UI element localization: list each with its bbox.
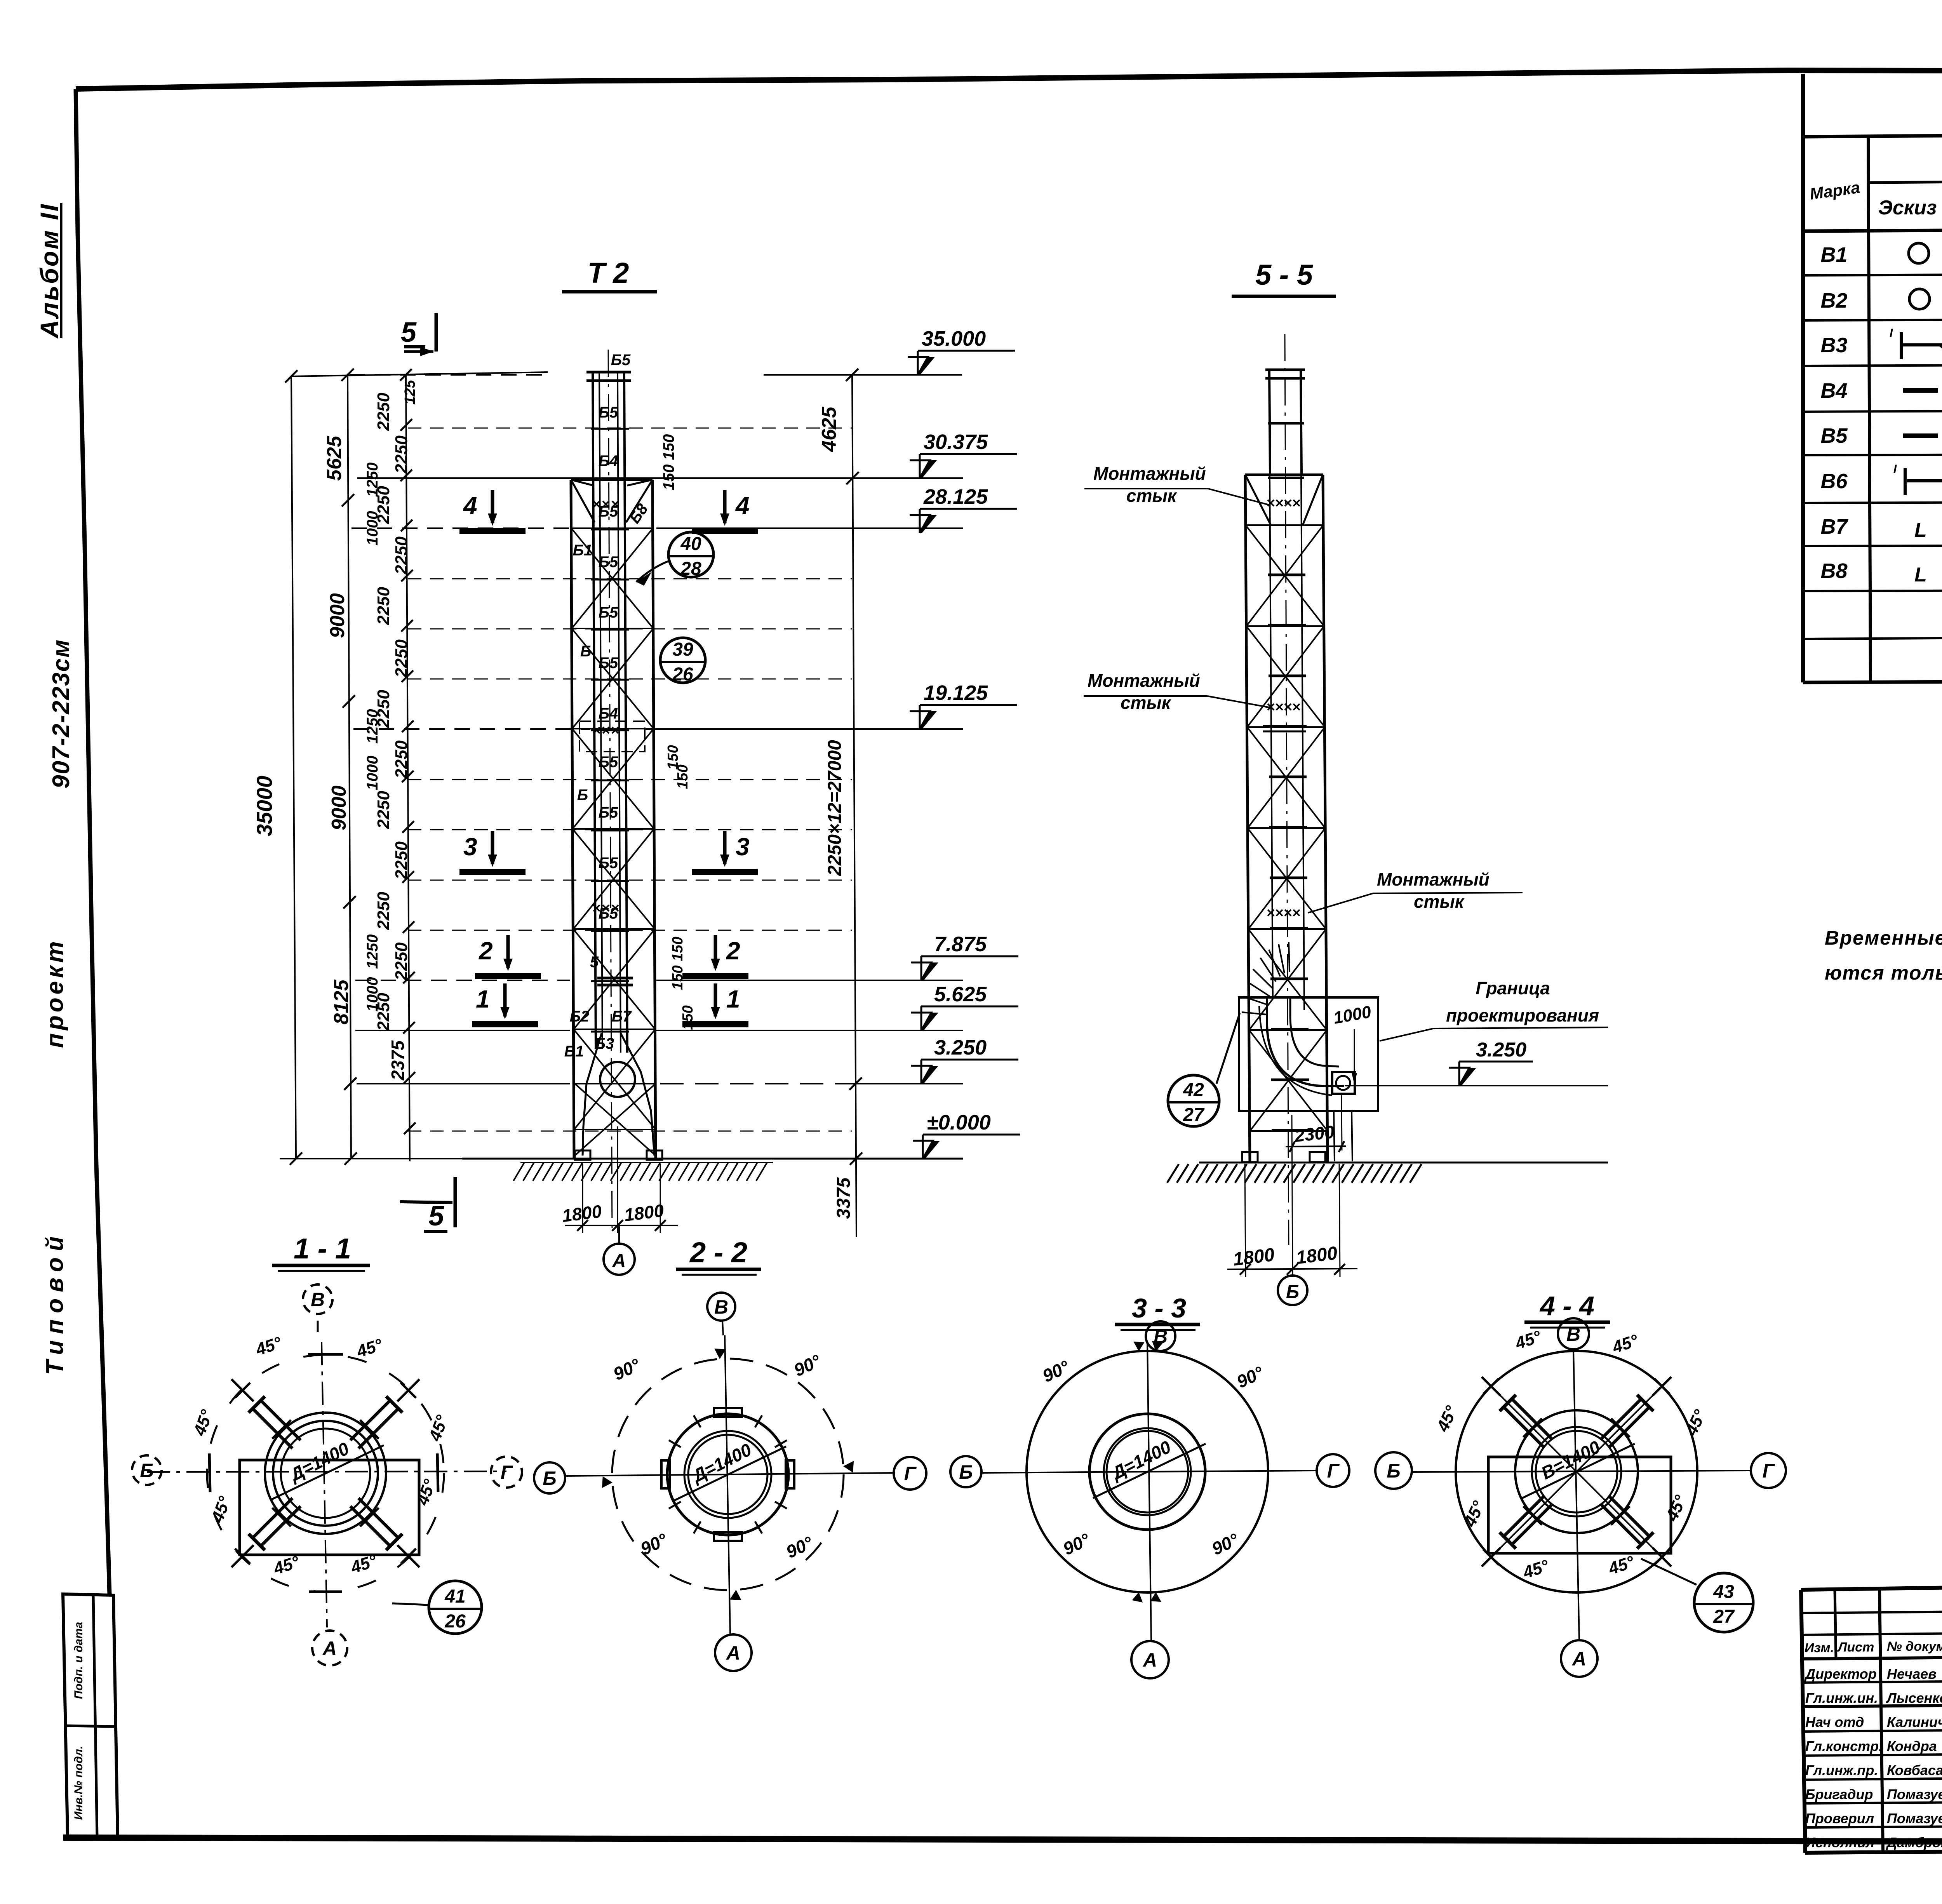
svg-text:Б5: Б5 xyxy=(599,754,618,771)
svg-text:43: 43 xyxy=(1713,1582,1734,1602)
svg-text:5: 5 xyxy=(428,1201,444,1232)
svg-text:Альбом II: Альбом II xyxy=(35,203,64,339)
svg-text:Б5: Б5 xyxy=(599,654,618,672)
svg-text:Помазуева: Помазуева xyxy=(1887,1786,1942,1802)
svg-text:2250: 2250 xyxy=(392,841,411,880)
svg-text:5.625: 5.625 xyxy=(934,983,987,1006)
svg-text:Б: Б xyxy=(959,1461,973,1483)
svg-text:Б: Б xyxy=(140,1460,153,1481)
svg-text:2: 2 xyxy=(479,937,493,965)
svg-text:Б1: Б1 xyxy=(564,1043,584,1060)
svg-text:5: 5 xyxy=(401,317,417,348)
svg-text:В3: В3 xyxy=(1820,334,1847,357)
svg-text:2250: 2250 xyxy=(392,942,411,981)
svg-text:L: L xyxy=(1914,519,1927,541)
svg-text:В: В xyxy=(1566,1323,1580,1345)
svg-text:№ докум: № докум xyxy=(1887,1639,1942,1654)
svg-text:1 - 1: 1 - 1 xyxy=(294,1232,351,1265)
svg-text:Монтажный: Монтажный xyxy=(1377,869,1490,889)
svg-text:Б2: Б2 xyxy=(570,1008,590,1025)
svg-text:Б: Б xyxy=(580,643,591,660)
svg-text:Калиничев: Калиничев xyxy=(1887,1714,1942,1730)
svg-text:А: А xyxy=(612,1251,626,1271)
svg-text:Подп. и дата: Подп. и дата xyxy=(72,1622,85,1699)
svg-text:125: 125 xyxy=(402,379,418,404)
svg-text:I: I xyxy=(1890,327,1893,339)
svg-text:Б5: Б5 xyxy=(599,604,618,621)
svg-text:В: В xyxy=(714,1296,728,1318)
svg-text:Г: Г xyxy=(904,1463,917,1485)
svg-text:±0.000: ±0.000 xyxy=(927,1111,991,1134)
svg-text:26: 26 xyxy=(672,664,693,685)
svg-text:В2: В2 xyxy=(1820,289,1847,312)
svg-text:Типовой: Типовой xyxy=(42,1230,68,1375)
svg-text:А: А xyxy=(322,1638,337,1659)
svg-text:1: 1 xyxy=(476,985,490,1013)
svg-text:Ковбаса: Ковбаса xyxy=(1887,1762,1942,1778)
svg-text:Граница: Граница xyxy=(1476,978,1550,998)
svg-text:2 - 2: 2 - 2 xyxy=(689,1236,747,1269)
svg-text:1: 1 xyxy=(726,985,740,1013)
svg-text:1250: 1250 xyxy=(364,463,381,497)
svg-text:Б5: Б5 xyxy=(599,804,618,821)
svg-text:Директор: Директор xyxy=(1804,1666,1877,1682)
svg-text:Б5: Б5 xyxy=(599,404,618,421)
svg-text:А: А xyxy=(726,1642,740,1664)
svg-text:3 - 3: 3 - 3 xyxy=(1132,1293,1186,1323)
svg-text:Б5: Б5 xyxy=(599,905,618,922)
svg-text:Б5: Б5 xyxy=(599,855,618,872)
svg-text:стык: стык xyxy=(1414,891,1465,912)
svg-text:Б1: Б1 xyxy=(573,542,593,559)
svg-text:35000: 35000 xyxy=(252,776,277,836)
svg-text:проект: проект xyxy=(42,938,68,1048)
svg-text:Б3: Б3 xyxy=(595,1035,614,1052)
svg-text:5: 5 xyxy=(590,954,599,971)
svg-text:В4: В4 xyxy=(1820,379,1847,402)
svg-text:9000: 9000 xyxy=(326,593,349,638)
svg-text:Б7: Б7 xyxy=(612,1008,632,1025)
svg-text:Нач отд: Нач отд xyxy=(1805,1714,1864,1730)
svg-text:Нечаев: Нечаев xyxy=(1887,1666,1937,1682)
svg-text:Г: Г xyxy=(1327,1460,1340,1482)
svg-text:Б4: Б4 xyxy=(599,453,618,470)
svg-text:Инв.№ подл.: Инв.№ подл. xyxy=(72,1746,85,1820)
svg-text:В7: В7 xyxy=(1820,515,1848,538)
svg-text:3.250: 3.250 xyxy=(1476,1039,1526,1061)
svg-text:2375: 2375 xyxy=(388,1040,408,1081)
svg-text:Б: Б xyxy=(1286,1282,1299,1302)
svg-text:ются только на время монтажа и: ются только на время монтажа или ремонта… xyxy=(1825,962,1942,984)
svg-text:150 150: 150 150 xyxy=(670,936,686,990)
svg-text:Б: Б xyxy=(577,787,588,804)
svg-text:7.875: 7.875 xyxy=(934,933,987,956)
svg-text:2250: 2250 xyxy=(392,536,411,575)
svg-text:40: 40 xyxy=(680,534,701,554)
svg-text:1250: 1250 xyxy=(364,935,381,969)
svg-text:Г: Г xyxy=(501,1462,513,1483)
svg-text:Монтажный: Монтажный xyxy=(1093,463,1206,484)
svg-text:Г: Г xyxy=(1763,1460,1775,1482)
svg-text:В8: В8 xyxy=(1820,559,1847,583)
svg-text:27: 27 xyxy=(1183,1105,1205,1125)
svg-text:Б: Б xyxy=(1387,1460,1400,1482)
svg-text:Монтажный: Монтажный xyxy=(1088,670,1200,691)
svg-text:1000: 1000 xyxy=(364,756,381,790)
svg-text:В5: В5 xyxy=(1820,424,1848,447)
svg-text:I: I xyxy=(1893,463,1897,475)
svg-text:907-2-223см: 907-2-223см xyxy=(48,639,75,788)
svg-text:В: В xyxy=(311,1289,325,1311)
svg-text:150: 150 xyxy=(680,1005,696,1030)
svg-text:L: L xyxy=(1914,564,1927,586)
svg-text:9000: 9000 xyxy=(328,785,350,830)
svg-text:2250: 2250 xyxy=(392,435,411,474)
svg-text:А: А xyxy=(1571,1648,1586,1670)
svg-text:2250: 2250 xyxy=(392,639,411,678)
svg-text:3: 3 xyxy=(463,833,477,861)
svg-text:Т 2: Т 2 xyxy=(588,257,629,289)
svg-text:Б: Б xyxy=(543,1467,556,1489)
svg-text:150 150: 150 150 xyxy=(660,434,677,491)
svg-text:5 - 5: 5 - 5 xyxy=(1255,259,1314,291)
svg-text:Лист: Лист xyxy=(1837,1640,1874,1655)
svg-text:28.125: 28.125 xyxy=(923,485,988,508)
svg-text:42: 42 xyxy=(1183,1080,1204,1100)
svg-text:Бригадир: Бригадир xyxy=(1805,1786,1873,1802)
svg-text:1000: 1000 xyxy=(364,977,381,1012)
svg-text:Б5: Б5 xyxy=(611,352,631,369)
svg-text:3: 3 xyxy=(736,833,750,861)
svg-text:2250: 2250 xyxy=(374,393,393,431)
svg-text:Дамбровская: Дамбровская xyxy=(1886,1834,1942,1850)
svg-text:27: 27 xyxy=(1713,1606,1735,1627)
svg-text:проектирования: проектирования xyxy=(1446,1005,1599,1025)
svg-text:4: 4 xyxy=(735,492,750,520)
svg-text:Б5: Б5 xyxy=(599,503,618,520)
svg-text:3.250: 3.250 xyxy=(934,1036,987,1059)
svg-text:4625: 4625 xyxy=(818,406,840,452)
svg-text:26: 26 xyxy=(444,1611,466,1632)
svg-text:1250: 1250 xyxy=(364,709,381,744)
svg-text:Б5: Б5 xyxy=(599,553,618,571)
svg-text:28: 28 xyxy=(680,559,701,579)
svg-text:35.000: 35.000 xyxy=(922,327,986,350)
svg-text:2300: 2300 xyxy=(1293,1121,1336,1146)
svg-text:3375: 3375 xyxy=(834,1177,854,1219)
svg-text:2: 2 xyxy=(726,937,740,965)
svg-text:Гл.инж.ин.: Гл.инж.ин. xyxy=(1805,1690,1878,1706)
svg-text:150: 150 xyxy=(675,764,691,789)
svg-text:5625: 5625 xyxy=(323,435,346,481)
svg-text:Проверил: Проверил xyxy=(1805,1810,1874,1826)
svg-text:Помазуева: Помазуева xyxy=(1887,1810,1942,1826)
svg-text:41: 41 xyxy=(444,1586,465,1607)
svg-text:2250: 2250 xyxy=(392,740,411,779)
svg-text:39: 39 xyxy=(672,639,693,660)
svg-text:Исполнил: Исполнил xyxy=(1805,1834,1874,1850)
svg-text:2250×12=27000: 2250×12=27000 xyxy=(825,740,845,876)
svg-text:Временные подвески вытяжной тр: Временные подвески вытяжной трубы — элем… xyxy=(1825,927,1942,949)
svg-text:2250: 2250 xyxy=(374,791,393,829)
svg-text:Изм.: Изм. xyxy=(1805,1641,1834,1655)
svg-text:Гл.инж.пр.: Гл.инж.пр. xyxy=(1805,1762,1878,1778)
svg-text:1000: 1000 xyxy=(364,511,381,546)
svg-text:Эскиз: Эскиз xyxy=(1878,197,1937,219)
svg-text:2250: 2250 xyxy=(374,892,393,930)
svg-text:Лысенко: Лысенко xyxy=(1886,1690,1942,1706)
svg-text:4: 4 xyxy=(463,492,477,520)
svg-text:А: А xyxy=(1142,1649,1157,1671)
svg-text:В6: В6 xyxy=(1820,470,1848,493)
svg-text:8125: 8125 xyxy=(330,979,353,1025)
svg-text:19.125: 19.125 xyxy=(924,681,988,705)
svg-text:4 - 4: 4 - 4 xyxy=(1539,1291,1594,1321)
svg-text:Кондра: Кондра xyxy=(1887,1738,1937,1754)
svg-text:В1: В1 xyxy=(1820,243,1847,266)
svg-text:Гл.констр.: Гл.констр. xyxy=(1805,1738,1883,1754)
svg-text:30.375: 30.375 xyxy=(924,430,988,454)
svg-text:Б4: Б4 xyxy=(599,705,618,722)
svg-text:2250: 2250 xyxy=(374,587,393,625)
